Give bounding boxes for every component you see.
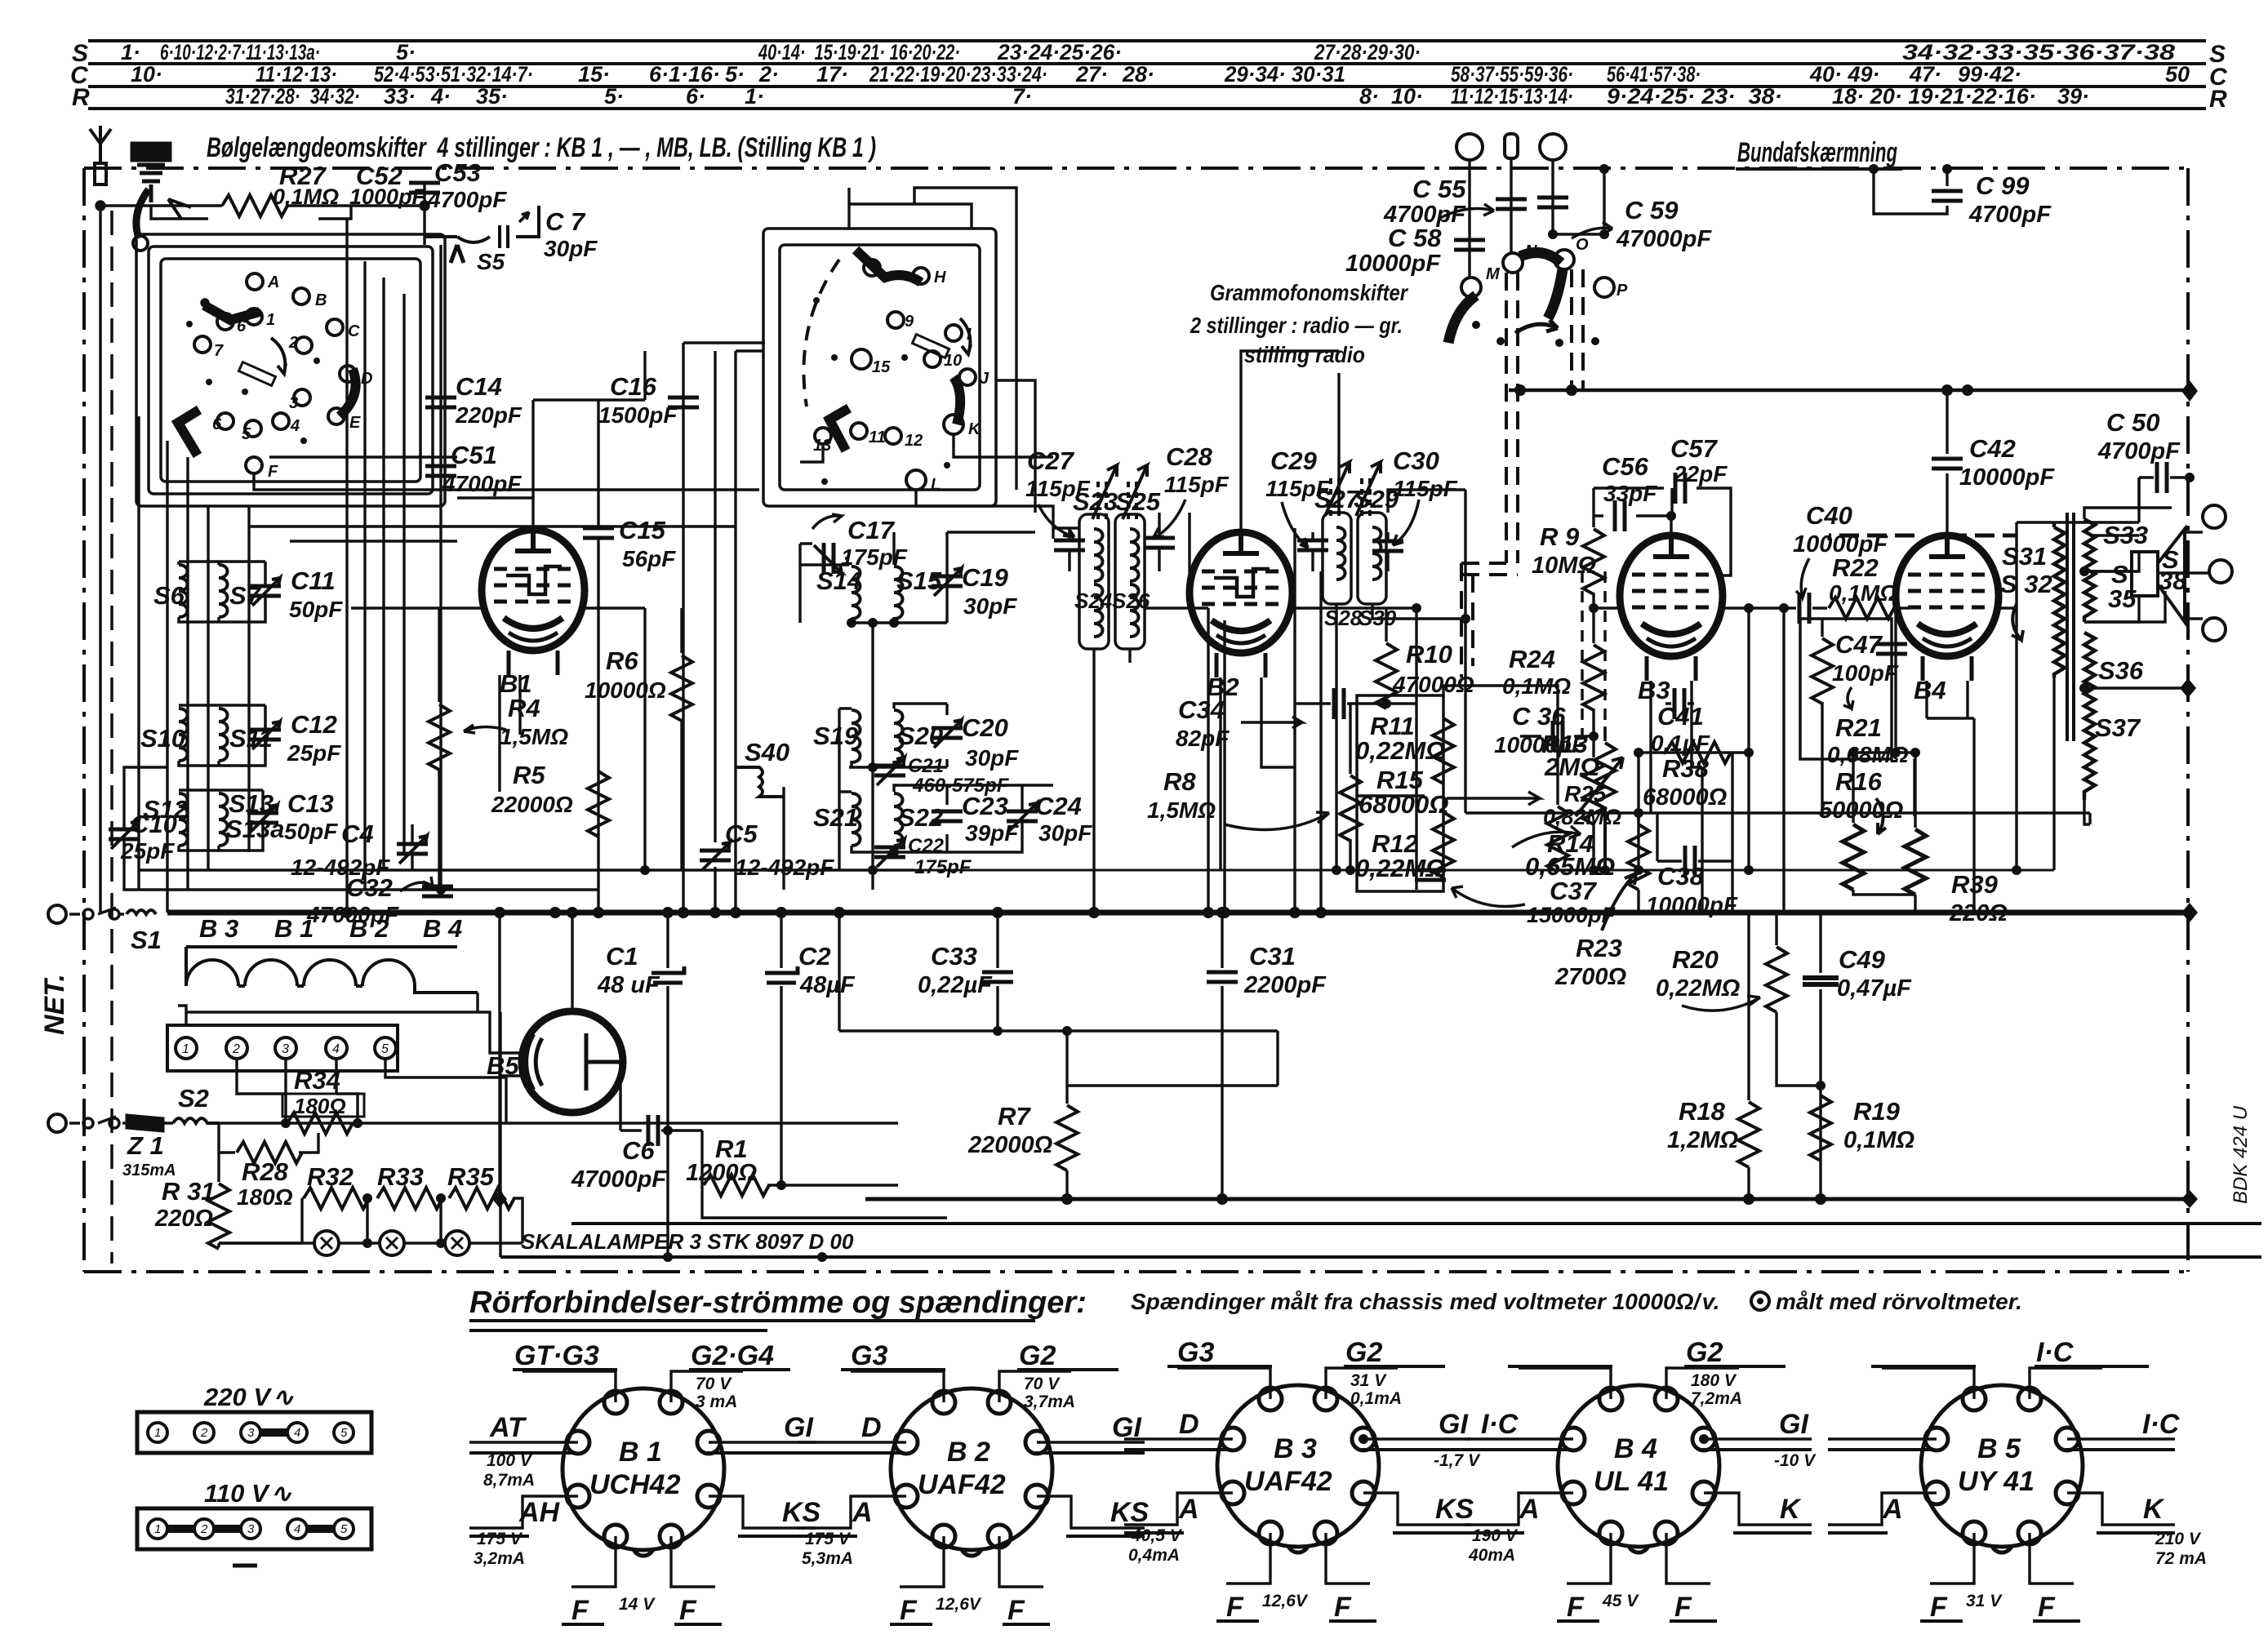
- svg-text:0,1MΩ: 0,1MΩ: [273, 184, 339, 209]
- capacitor C4 variable: [397, 836, 428, 864]
- wire inner left dashed line: [110, 211, 113, 1264]
- capacitor C37: [1415, 870, 1446, 880]
- svg-text:S36: S36: [2098, 656, 2144, 685]
- svg-text:110 V ∿: 110 V ∿: [204, 1479, 292, 1508]
- capacitor C23: [945, 798, 948, 852]
- svg-text:23·24·25·26·: 23·24·25·26·: [997, 40, 1122, 64]
- svg-text:R24: R24: [1509, 645, 1555, 673]
- svg-text:28·: 28·: [1122, 62, 1154, 87]
- wave switch 1 frame: [136, 234, 445, 506]
- capacitor C2: [780, 913, 782, 1185]
- svg-text:M: M: [1486, 265, 1501, 283]
- capacitor C40: [1749, 606, 1827, 609]
- svg-text:1: 1: [266, 311, 275, 329]
- svg-text:220Ω: 220Ω: [1949, 900, 2008, 926]
- svg-text:F: F: [1334, 1592, 1352, 1623]
- wire B2 plate grid cathode: [1190, 351, 1416, 913]
- svg-text:R16: R16: [1835, 767, 1883, 796]
- capacitor C12 variable: [250, 722, 281, 749]
- resistor R38: [1665, 742, 1731, 763]
- wire main bus: [167, 910, 2190, 916]
- svg-text:4700pF: 4700pF: [427, 187, 507, 212]
- svg-text:GI: GI: [1439, 1409, 1469, 1440]
- coil S12: [179, 793, 188, 846]
- svg-text:S19: S19: [813, 722, 859, 750]
- switch contact N: [1503, 253, 1523, 273]
- switch S3 contact A: [247, 273, 263, 290]
- svg-text:2: 2: [200, 1522, 208, 1536]
- capacitor C21 variable: [874, 757, 905, 785]
- mains terminal upper: [48, 905, 66, 923]
- svg-text:6·1·16·: 6·1·16·: [649, 62, 720, 87]
- svg-text:40· 49·: 40· 49·: [1809, 62, 1880, 87]
- svg-text:1000pF: 1000pF: [349, 184, 427, 209]
- svg-text:S20: S20: [898, 722, 943, 750]
- svg-text:D: D: [1179, 1409, 1199, 1440]
- capacitor C49: [1819, 913, 1821, 1199]
- svg-text:F: F: [1567, 1592, 1585, 1623]
- svg-text:UL 41: UL 41: [1594, 1466, 1669, 1497]
- svg-text:S2: S2: [178, 1084, 209, 1113]
- svg-text:C20: C20: [962, 713, 1008, 742]
- svg-text:S1: S1: [131, 926, 162, 954]
- svg-text:Bølgelængdeomskifter 4 stilli: Bølgelængdeomskifter 4 stillinger : KB 1…: [207, 132, 876, 163]
- svg-text:5·: 5·: [604, 84, 624, 109]
- resistor R28: [219, 1123, 318, 1153]
- switch contact O: [1554, 250, 1574, 269]
- svg-text:6·10·12·2·7·11·13·13a·: 6·10·12·2·7·11·13·13a·: [160, 40, 320, 64]
- resistor R23: [1637, 816, 1639, 823]
- wire switch2 outputs: [736, 351, 1053, 539]
- svg-text:R: R: [2209, 86, 2227, 113]
- resistor R33: [377, 1188, 442, 1209]
- svg-text:25pF: 25pF: [120, 838, 175, 864]
- resistor R15 element: [1547, 806, 1568, 872]
- IF transformer 1 windings S23 S24 S25 S26: [1079, 514, 1145, 649]
- svg-text:1·: 1·: [121, 40, 140, 64]
- svg-text:11·12·15·13·14·: 11·12·15·13·14·: [1451, 84, 1573, 109]
- svg-text:31·27·28· 34·32·: 31·27·28· 34·32·: [225, 84, 360, 109]
- svg-text:7·: 7·: [1012, 84, 1032, 109]
- svg-text:C32: C32: [346, 873, 393, 902]
- svg-text:27·: 27·: [1075, 62, 1108, 87]
- wire R24 shield dashes: [1582, 571, 1605, 739]
- svg-text:C57: C57: [1670, 434, 1719, 463]
- svg-text:175pF: 175pF: [914, 856, 972, 878]
- resistor R6: [680, 608, 683, 653]
- svg-text:7,2mA: 7,2mA: [1691, 1389, 1742, 1408]
- svg-text:F: F: [900, 1595, 918, 1626]
- svg-text:C29: C29: [1270, 446, 1318, 475]
- dial lamp 3: [445, 1231, 469, 1255]
- svg-text:R10: R10: [1406, 640, 1452, 669]
- svg-text:F: F: [1007, 1595, 1025, 1626]
- svg-text:B 1: B 1: [274, 914, 314, 943]
- tube B5 UY41 rectifier: [522, 1011, 623, 1113]
- capacitor C15: [597, 400, 599, 913]
- svg-text:68000Ω: 68000Ω: [1643, 784, 1728, 811]
- wire IF2 connections: [1313, 373, 1465, 870]
- svg-text:0,1MΩ: 0,1MΩ: [1502, 673, 1571, 699]
- svg-text:C24: C24: [1035, 792, 1082, 820]
- svg-text:50pF: 50pF: [284, 819, 338, 844]
- svg-text:C16: C16: [610, 372, 657, 401]
- svg-text:C28: C28: [1166, 442, 1213, 471]
- resistor R35: [449, 1188, 514, 1209]
- transformer primary S31 S32: [2054, 522, 2065, 677]
- svg-text:3: 3: [289, 394, 298, 412]
- switch contact M: [1461, 278, 1481, 297]
- resistor R18: [1747, 913, 1750, 1100]
- node bottom title: [469, 1286, 2022, 1320]
- wire coil block frame: [124, 767, 457, 890]
- svg-text:18· 20· 19·21·22·16·: 18· 20· 19·21·22·16·: [1832, 84, 2036, 109]
- svg-text:R23: R23: [1576, 934, 1622, 962]
- capacitor C19 variable: [932, 568, 963, 596]
- resistor R7: [1065, 1031, 1068, 1104]
- switch contact B: [293, 288, 309, 304]
- resistor R31: [217, 1153, 220, 1182]
- svg-text:P: P: [1617, 282, 1628, 300]
- svg-text:3,7mA: 3,7mA: [1024, 1393, 1075, 1411]
- wire speaker to terminals: [2084, 478, 2209, 622]
- wire mains row: [219, 1122, 898, 1124]
- resistor R20: [1775, 913, 1777, 945]
- svg-text:10000pF: 10000pF: [1646, 892, 1738, 917]
- wire C33 loop: [839, 913, 1278, 1086]
- svg-text:G3: G3: [851, 1340, 887, 1371]
- svg-text:UCH42: UCH42: [589, 1469, 681, 1500]
- pickup terminal 2: [1505, 134, 1518, 158]
- svg-text:175 V: 175 V: [805, 1530, 852, 1548]
- svg-text:R18: R18: [1679, 1097, 1726, 1126]
- resistor R22: [1829, 597, 1894, 619]
- wire switch1 to coils verticals: [139, 416, 249, 913]
- capacitor C50: [2157, 462, 2167, 493]
- svg-text:C 59: C 59: [1625, 196, 1679, 224]
- svg-text:C33: C33: [931, 942, 977, 971]
- capacitor C17 variable: [814, 543, 842, 574]
- resistor R9: [1592, 488, 1594, 527]
- svg-text:S14: S14: [816, 566, 861, 595]
- svg-text:B 2: B 2: [947, 1437, 990, 1468]
- wire speaker feed row: [1829, 478, 2139, 608]
- svg-text:4: 4: [294, 1426, 300, 1440]
- capacitor C1: [666, 913, 669, 1257]
- resistor R14 labels: [1525, 829, 1615, 881]
- capacitor C55b: [1537, 198, 1568, 207]
- capacitor C37 labels: [1527, 877, 1617, 927]
- wire C15 top: [533, 400, 645, 498]
- svg-text:1: 1: [154, 1426, 161, 1440]
- switch gramo arm 1: [1448, 295, 1476, 343]
- pickup terminal 1: [1456, 134, 1483, 160]
- svg-text:0,4mA: 0,4mA: [1128, 1546, 1180, 1565]
- switch contact P: [1594, 278, 1614, 297]
- switch contact 2: [296, 337, 312, 353]
- svg-text:B 5: B 5: [1977, 1433, 2021, 1464]
- switch contact 9: [887, 312, 904, 328]
- svg-text:Z 1: Z 1: [127, 1131, 164, 1160]
- resistor R25: [1583, 759, 1604, 824]
- svg-text:6: 6: [212, 415, 222, 433]
- svg-text:33pF: 33pF: [1603, 481, 1657, 506]
- svg-text:29·34· 30·31: 29·34· 30·31: [1224, 62, 1345, 87]
- svg-text:S 32: S 32: [2000, 570, 2052, 598]
- switch contact 13: [815, 428, 831, 444]
- wire IF1 connections: [1053, 513, 1190, 913]
- switch contact 15: [852, 349, 871, 369]
- svg-text:33·: 33·: [384, 84, 416, 109]
- fuse Z1: [122, 1122, 173, 1124]
- svg-text:R28: R28: [242, 1157, 289, 1186]
- coil S20: [894, 710, 903, 762]
- capacitor C36: [1520, 735, 1594, 737]
- capacitor C16: [682, 343, 684, 913]
- svg-text:C 36: C 36: [1512, 702, 1566, 731]
- svg-text:180Ω: 180Ω: [294, 1094, 346, 1118]
- capacitor C6: [642, 1130, 702, 1131]
- svg-text:2 stillinger : radio — gr.: 2 stillinger : radio — gr.: [1190, 313, 1403, 338]
- pickup terminal 3: [1540, 134, 1566, 160]
- resistor R1: [661, 1131, 702, 1185]
- svg-text:30pF: 30pF: [965, 745, 1019, 771]
- svg-text:10000Ω: 10000Ω: [585, 677, 666, 703]
- dial lamp 1: [314, 1231, 339, 1255]
- svg-text:C37: C37: [1550, 877, 1598, 905]
- wire B5 leads: [478, 913, 642, 1257]
- svg-text:2700Ω: 2700Ω: [1554, 964, 1627, 990]
- svg-text:Spændinger målt fra chassis me: Spændinger målt fra chassis med voltmete…: [1131, 1289, 1719, 1314]
- svg-text:R 9: R 9: [1540, 522, 1580, 551]
- wire gramo shield dashed pair 2: [1572, 269, 1583, 392]
- svg-text:C 99: C 99: [1976, 171, 2030, 200]
- switch contact 11: [851, 423, 867, 439]
- svg-text:F: F: [2038, 1592, 2056, 1623]
- svg-text:C14: C14: [456, 372, 502, 401]
- svg-text:C 7: C 7: [545, 207, 586, 236]
- svg-text:0,1mA: 0,1mA: [1350, 1389, 1402, 1408]
- svg-text:8,7mA: 8,7mA: [483, 1471, 535, 1490]
- resistor R32: [219, 1242, 302, 1244]
- svg-text:B 3: B 3: [199, 914, 238, 943]
- wire gramo shield elbow: [1461, 563, 1518, 677]
- switch wiper arm 2: [340, 369, 356, 416]
- svg-text:F: F: [1226, 1592, 1244, 1623]
- svg-text:C30: C30: [1393, 446, 1439, 475]
- tube B4 UL41: [1896, 535, 1999, 681]
- coil S2: [173, 1118, 219, 1123]
- svg-text:A: A: [852, 1497, 873, 1528]
- svg-text:SKALALAMPER 3 STK 8097 D 00: SKALALAMPER 3 STK 8097 D 00: [521, 1229, 854, 1254]
- svg-text:C13: C13: [287, 789, 334, 818]
- svg-text:AH: AH: [518, 1497, 561, 1528]
- svg-text:KS: KS: [782, 1497, 821, 1528]
- svg-text:70 V: 70 V: [1024, 1375, 1061, 1393]
- svg-text:45 V: 45 V: [1602, 1592, 1639, 1610]
- svg-text:C17: C17: [847, 516, 896, 544]
- svg-text:2: 2: [232, 1042, 240, 1056]
- switch contact 6b: [217, 413, 233, 429]
- svg-text:12,6V: 12,6V: [936, 1595, 982, 1614]
- svg-text:15000pF: 15000pF: [1527, 903, 1617, 927]
- svg-text:3: 3: [247, 1522, 255, 1536]
- svg-text:47000pF: 47000pF: [571, 1166, 667, 1193]
- svg-text:22000Ω: 22000Ω: [491, 792, 573, 817]
- svg-text:5·: 5·: [396, 40, 416, 64]
- svg-text:5·: 5·: [725, 62, 745, 87]
- svg-text:31 V: 31 V: [1966, 1592, 2003, 1610]
- resistor network box R11 R15 R12: [1357, 695, 1443, 891]
- svg-text:47·: 47·: [1909, 62, 1941, 87]
- switch wiper arm 5: [954, 377, 960, 424]
- svg-text:C 58: C 58: [1388, 224, 1442, 252]
- transformer secondary S36 S37: [2084, 633, 2095, 800]
- capacitor C47: [1876, 644, 1907, 654]
- svg-text:12,6V: 12,6V: [1262, 1592, 1309, 1610]
- switch S2 contact: [69, 1117, 116, 1123]
- resistor R34: [287, 1113, 353, 1134]
- svg-text:J: J: [980, 370, 989, 388]
- resistor R13 potentiometer: [1603, 726, 1606, 741]
- capacitor C11 variable: [250, 578, 281, 606]
- svg-text:-1,7 V: -1,7 V: [1434, 1451, 1481, 1470]
- svg-text:175 V: 175 V: [477, 1530, 523, 1548]
- svg-text:50: 50: [2165, 62, 2190, 87]
- svg-text:R7: R7: [998, 1102, 1031, 1131]
- svg-text:4: 4: [332, 1042, 340, 1056]
- wire y1066 long: [139, 869, 2054, 872]
- svg-text:AT: AT: [489, 1412, 527, 1443]
- svg-text:R6: R6: [606, 646, 638, 675]
- svg-text:48 uF: 48 uF: [597, 972, 660, 998]
- svg-text:R35: R35: [447, 1162, 495, 1191]
- svg-text:C15: C15: [619, 516, 666, 544]
- svg-text:38: 38: [2159, 566, 2187, 595]
- svg-text:S7: S7: [229, 581, 262, 610]
- svg-text:S22: S22: [898, 803, 943, 832]
- svg-text:9: 9: [905, 313, 914, 331]
- svg-text:A: A: [1882, 1494, 1903, 1525]
- switch rotation arrow: [271, 338, 286, 374]
- svg-text:15: 15: [872, 358, 891, 376]
- switch contact K: [944, 415, 963, 434]
- trimmer arrows IF1: [1098, 482, 1106, 522]
- svg-text:R5: R5: [513, 761, 545, 789]
- capacitor C29: [1297, 540, 1328, 550]
- svg-text:R1: R1: [715, 1135, 748, 1163]
- svg-text:5: 5: [340, 1522, 348, 1536]
- svg-text:0,22MΩ: 0,22MΩ: [1355, 736, 1445, 765]
- switch contact D: [340, 366, 356, 382]
- svg-text:8· 10·: 8· 10·: [1359, 84, 1423, 109]
- wire B1 grid and plate: [351, 498, 645, 792]
- svg-text:C2: C2: [798, 942, 831, 971]
- svg-text:50pF: 50pF: [289, 597, 343, 622]
- svg-text:R19: R19: [1853, 1097, 1901, 1126]
- tube socket B4 UL41: [1465, 1337, 1817, 1623]
- svg-text:39pF: 39pF: [965, 820, 1019, 846]
- svg-text:39·: 39·: [2057, 84, 2089, 109]
- wire right column risers: [1853, 608, 2017, 913]
- wire y996 row: [1465, 813, 2090, 861]
- svg-text:115pF: 115pF: [1164, 472, 1230, 497]
- switch contact 12: [885, 428, 901, 444]
- svg-text:C11: C11: [291, 566, 336, 595]
- switch contact 10: [924, 351, 941, 367]
- svg-text:3 mA: 3 mA: [696, 1393, 737, 1411]
- svg-text:UAF42: UAF42: [1244, 1466, 1332, 1497]
- switch S1: [69, 908, 124, 914]
- svg-text:B 4: B 4: [423, 914, 462, 943]
- wire B2 area risers: [1295, 490, 1605, 913]
- svg-text:UAF42: UAF42: [918, 1469, 1006, 1500]
- capacitor C55: [1496, 199, 1527, 209]
- svg-text:10000pF: 10000pF: [1345, 251, 1441, 277]
- svg-text:B: B: [315, 291, 327, 309]
- svg-text:UY 41: UY 41: [1958, 1466, 2035, 1497]
- svg-text:K: K: [1780, 1494, 1802, 1525]
- node Bundafskaermning label: [1737, 137, 1897, 168]
- svg-text:21·22·19·20·23·33·24·: 21·22·19·20·23·33·24·: [869, 62, 1047, 87]
- svg-text:2: 2: [288, 334, 298, 352]
- svg-text:S37: S37: [2095, 713, 2141, 742]
- switch contact I: [945, 325, 962, 341]
- wire lamp row: [219, 913, 523, 1243]
- resistor R10: [1385, 608, 1387, 642]
- strip terminal 4: [326, 1037, 347, 1059]
- svg-text:22pF: 22pF: [1673, 461, 1728, 486]
- resistor R39: [1914, 753, 1916, 828]
- svg-text:C23: C23: [962, 792, 1008, 820]
- wire S19 block frame: [839, 623, 947, 890]
- svg-text:4700pF: 4700pF: [442, 471, 522, 496]
- svg-text:C22: C22: [908, 835, 945, 857]
- svg-text:4·: 4·: [430, 84, 451, 109]
- svg-text:S6: S6: [153, 581, 185, 610]
- svg-text:11: 11: [869, 429, 886, 446]
- svg-text:50000Ω: 50000Ω: [1819, 797, 1904, 824]
- tube socket B2 UAF42: [798, 1340, 1150, 1626]
- svg-text:Rörforbindelser-strömme og spæ: Rörforbindelser-strömme og spændinger:: [469, 1286, 1087, 1320]
- svg-text:17·: 17·: [816, 62, 848, 87]
- node Boelgelaengdeomskifter label: [207, 132, 876, 163]
- svg-text:NET.: NET.: [39, 974, 70, 1035]
- svg-text:R 31: R 31: [162, 1177, 215, 1206]
- svg-text:C: C: [348, 322, 360, 340]
- capacitor C41: [1674, 688, 1684, 719]
- svg-text:H: H: [934, 269, 946, 287]
- svg-text:0,1MΩ: 0,1MΩ: [1843, 1127, 1914, 1153]
- svg-text:C27: C27: [1027, 446, 1075, 475]
- switch contact E: [328, 408, 345, 424]
- svg-text:Grammofonomskifter: Grammofonomskifter: [1210, 280, 1409, 305]
- svg-text:1: 1: [154, 1522, 161, 1536]
- switch contact 1: [246, 309, 262, 325]
- svg-text:S33: S33: [2103, 521, 2148, 549]
- svg-text:10000pF: 10000pF: [1959, 464, 2055, 491]
- switch rotation arrow 2: [960, 318, 971, 354]
- svg-text:D: D: [861, 1412, 882, 1443]
- coil S21: [852, 793, 861, 846]
- mains terminal lower: [48, 1114, 66, 1132]
- svg-text:C10: C10: [131, 810, 177, 838]
- resistor R5: [588, 771, 609, 837]
- svg-text:C51: C51: [451, 441, 497, 469]
- svg-text:40mA: 40mA: [1468, 1546, 1515, 1565]
- wire switch1 outputs: [249, 457, 759, 541]
- coil S6: [179, 565, 188, 617]
